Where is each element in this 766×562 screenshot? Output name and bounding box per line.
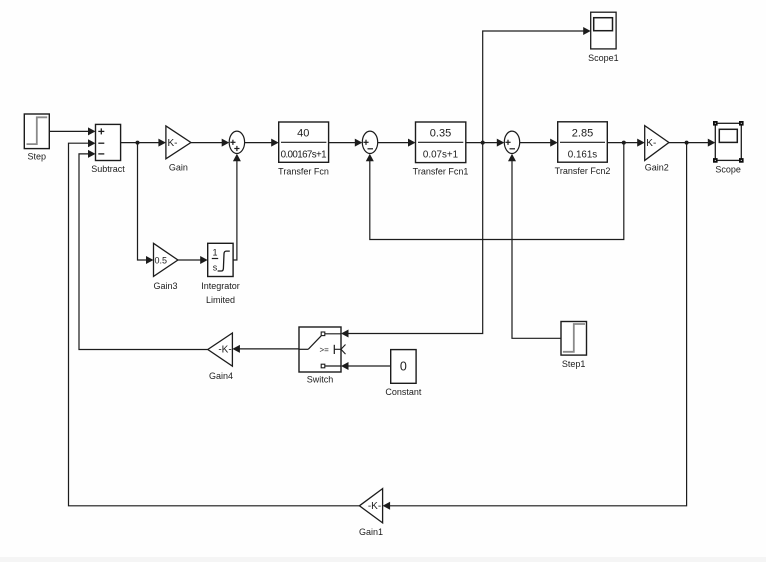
arrowhead into Sum2 bottom (366, 154, 374, 162)
wire Gain4 left up to Subtract port3 (79, 154, 208, 350)
arrowhead into Gain3 (146, 256, 154, 264)
arrowhead into Sum2 left (355, 139, 363, 147)
wire Gain2 to Scope (669, 142, 709, 144)
svg-text:Step1: Step1 (562, 359, 586, 369)
svg-text:Gain3: Gain3 (153, 281, 177, 291)
svg-text:1: 1 (212, 248, 217, 258)
svg-text:Limited: Limited (206, 295, 235, 305)
wire Sum1 to Transfer Fcn (245, 142, 272, 144)
Sum2 summing junction (362, 131, 377, 153)
wire Gain1 left up to Subtract port2 (69, 143, 360, 506)
wire Integrator up to Sum1 bottom (233, 160, 237, 260)
svg-text:Transfer Fcn: Transfer Fcn (278, 166, 329, 176)
arrowhead into Switch bottom input (341, 362, 349, 370)
Transfer Fcn1 block (416, 122, 466, 163)
wire Step1 left up to Sum3 bottom (512, 160, 561, 338)
Gain3 block (154, 243, 178, 276)
Sum3 summing junction (504, 131, 519, 153)
wire feedback J4 down to y506 left to Gain1 (389, 143, 687, 506)
wire junction J2 down and left to Switch top input (348, 143, 483, 334)
wire Transfer Fcn to Sum2 (329, 142, 356, 144)
svg-text:>=: >= (320, 346, 330, 355)
svg-text:0.00167s+1: 0.00167s+1 (281, 150, 327, 161)
svg-text:s: s (213, 263, 218, 273)
junction node J2 after Transfer Fcn1 (481, 141, 485, 145)
svg-text:Step: Step (28, 152, 47, 162)
Integrator Limited block (208, 243, 233, 276)
svg-text:0.07s+1: 0.07s+1 (423, 150, 458, 161)
Gain4 block (208, 333, 233, 366)
Step source block (24, 114, 49, 149)
svg-text:Switch: Switch (307, 375, 334, 385)
wire junction J2 up and right to Scope1 (483, 31, 585, 143)
arrowhead into Gain1 (383, 502, 391, 510)
Gain2 block (645, 126, 669, 161)
svg-text:Constant: Constant (385, 387, 422, 397)
wire Subtract output to Gain (121, 142, 160, 144)
arrowhead into Scope1 (583, 27, 591, 35)
arrowhead into Sum3 left (497, 139, 505, 147)
Gain1 block (359, 489, 382, 523)
wire Gain3 to Integrator (178, 259, 202, 261)
svg-text:40: 40 (297, 127, 309, 139)
arrowhead into Subtract port1 (88, 127, 96, 135)
svg-text:0.35: 0.35 (430, 127, 451, 139)
wire Gain to Sum1 (191, 142, 223, 144)
svg-text:K-: K- (646, 138, 656, 149)
arrowhead into Subtract port2 (88, 139, 96, 147)
arrowhead into Transfer Fcn (271, 139, 279, 147)
wire Transfer Fcn2 to Gain2 (607, 142, 638, 144)
svg-text:0.5: 0.5 (155, 256, 168, 266)
arrowhead into Gain4 (232, 345, 240, 353)
wire Step to Subtract (49, 130, 89, 132)
svg-text:Subtract: Subtract (91, 164, 125, 174)
Gain block (166, 126, 191, 159)
junction node J1 after Subtract (136, 141, 140, 145)
svg-text:0.161s: 0.161s (568, 150, 598, 161)
wire Sum3 to Transfer Fcn2 (520, 142, 552, 144)
arrowhead into Subtract port3 (88, 150, 96, 158)
arrowhead into Scope (708, 139, 716, 147)
svg-text:Integrator: Integrator (201, 281, 240, 291)
wire feedback J3 down left up to Sum2 bottom (370, 143, 624, 240)
arrowhead into Sum3 bottom (508, 154, 516, 162)
arrowhead into Transfer Fcn1 (408, 139, 416, 147)
svg-text:-K-: -K- (218, 345, 231, 356)
wire junction J1 down to Gain3 input (138, 143, 148, 260)
Sum1 summing junction (229, 131, 244, 153)
junction node J3 after Transfer Fcn2 (622, 141, 626, 145)
wire Transfer Fcn1 to Sum3 (466, 142, 498, 144)
arrowhead into Sum1 bottom (233, 154, 241, 162)
svg-text:Gain2: Gain2 (645, 163, 669, 173)
svg-text:Scope: Scope (715, 165, 741, 175)
svg-text:Transfer Fcn2: Transfer Fcn2 (555, 166, 611, 176)
wire Constant to Switch bottom input (348, 365, 391, 367)
Switch block (299, 327, 346, 372)
Scope block (713, 121, 744, 163)
svg-text:K-: K- (168, 138, 178, 149)
svg-text:Scope1: Scope1 (588, 53, 619, 63)
svg-text:Gain4: Gain4 (209, 371, 233, 381)
svg-text:-K-: -K- (368, 501, 381, 512)
wire Switch output to Gain4 (239, 348, 299, 350)
svg-text:Gain: Gain (169, 163, 188, 173)
junction node J4 after Gain2 (685, 141, 689, 145)
svg-text:Gain1: Gain1 (359, 527, 383, 537)
arrowhead into Sum1 left (222, 139, 230, 147)
arrowhead into Transfer Fcn2 (550, 139, 558, 147)
Transfer Fcn block (279, 122, 329, 162)
arrowhead into Integrator (200, 256, 208, 264)
Step1 source block (561, 322, 587, 356)
Subtract block (96, 124, 121, 160)
Constant block (391, 350, 416, 384)
arrowhead into Switch top input (341, 330, 349, 338)
svg-text:Transfer Fcn1: Transfer Fcn1 (413, 166, 469, 176)
svg-text:0: 0 (400, 360, 407, 374)
Transfer Fcn2 block (558, 122, 608, 162)
arrowhead into Gain (158, 139, 166, 147)
arrowhead into Gain2 (637, 139, 645, 147)
svg-text:2.85: 2.85 (572, 127, 593, 139)
wire Sum2 to Transfer Fcn1 (378, 142, 409, 144)
Scope1 block (591, 12, 616, 49)
